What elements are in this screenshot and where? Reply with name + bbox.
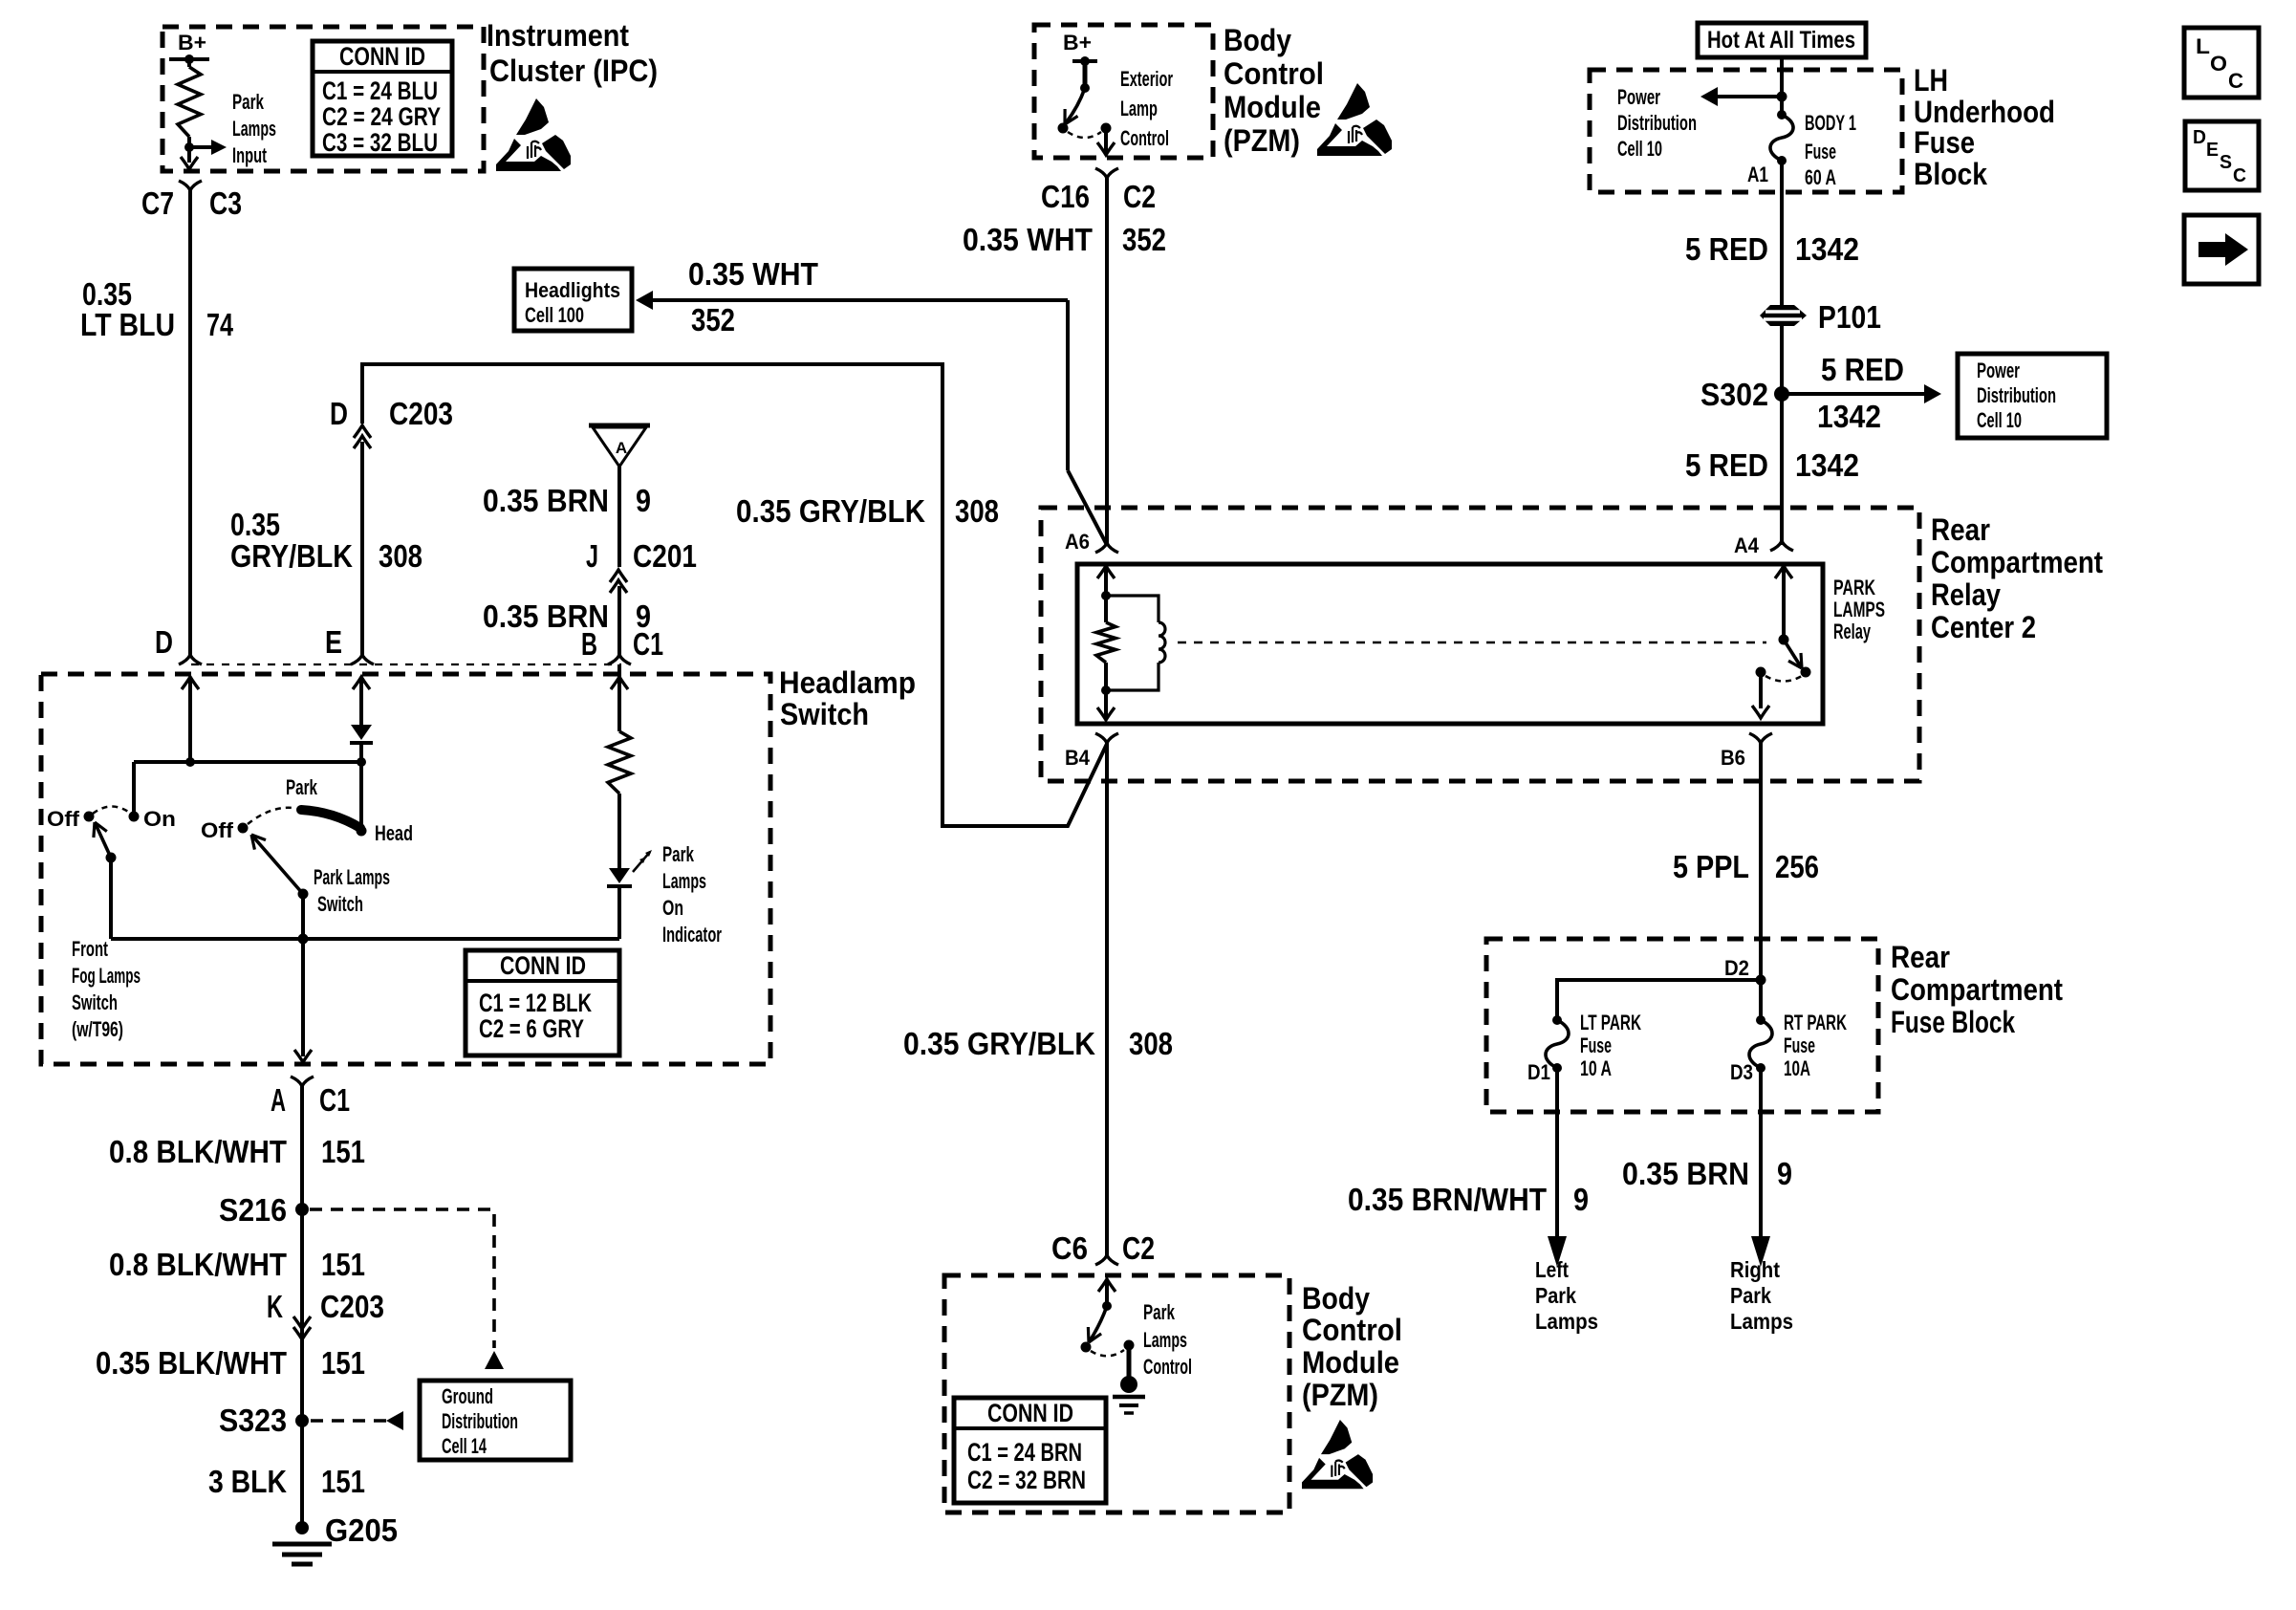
ground G205: [295, 1521, 309, 1534]
icon box LOC: [2184, 28, 2259, 98]
box Power Distribution Cell 10 (right): [1958, 354, 2107, 438]
svg-text:10 A: 10 A: [1580, 1056, 1612, 1080]
svg-text:D: D: [330, 396, 348, 431]
svg-text:D: D: [155, 624, 173, 660]
svg-text:LT PARK: LT PARK: [1580, 1011, 1641, 1034]
dashed travel arc relay contact: [1765, 676, 1802, 682]
relay switch arm: [1784, 640, 1802, 668]
svg-text:Fuse: Fuse: [1914, 125, 1975, 160]
svg-text:0.8 BLK/WHT: 0.8 BLK/WHT: [109, 1247, 287, 1282]
pin arrow D into switch: [182, 677, 199, 689]
svg-text:C1 = 24 BLU: C1 = 24 BLU: [322, 76, 438, 105]
CONN ID box (headlamp switch): [466, 950, 619, 1055]
arrow park lamps input (right): [189, 145, 212, 149]
svg-text:Off: Off: [47, 807, 80, 831]
svg-text:C6: C6: [1051, 1230, 1088, 1266]
body control module (PZM) dashed box top: [1034, 25, 1213, 158]
svg-text:J: J: [586, 538, 598, 574]
resistor relay coil suppression: [1096, 622, 1116, 663]
wire from hot feed: [1780, 57, 1784, 115]
svg-text:C2 = 6 GRY: C2 = 6 GRY: [479, 1014, 584, 1043]
svg-text:74: 74: [206, 307, 233, 342]
LED park lamps on indicator: [609, 868, 630, 883]
dashed travel arc park lamps control: [1091, 1350, 1124, 1356]
svg-text:B+: B+: [1063, 31, 1092, 54]
svg-text:Park: Park: [1730, 1283, 1771, 1308]
svg-text:E: E: [2206, 140, 2219, 161]
svg-text:C2: C2: [1122, 1230, 1155, 1266]
box Ground Distribution Cell 14: [420, 1381, 571, 1460]
splice S216: [295, 1203, 309, 1216]
wire fog pivot down: [109, 858, 113, 939]
ESD symbol IPC: [496, 98, 571, 171]
svg-text:Body: Body: [1224, 23, 1291, 57]
svg-text:On: On: [662, 896, 683, 920]
svg-text:C: C: [2233, 165, 2246, 186]
connector C6/C2: [1095, 1255, 1118, 1265]
svg-text:0.35 WHT: 0.35 WHT: [688, 256, 818, 292]
svg-text:Distribution: Distribution: [1977, 383, 2056, 407]
svg-text:C2: C2: [1123, 179, 1156, 214]
svg-text:GRY/BLK: GRY/BLK: [230, 538, 353, 574]
connector B6: [1749, 733, 1772, 743]
wire 9 BRN/WHT to left park lamps: [1555, 1068, 1559, 1238]
svg-text:C7: C7: [141, 185, 174, 221]
diode headlamp switch E leg: [351, 725, 372, 740]
svg-text:C3 = 32 BLU: C3 = 32 BLU: [322, 128, 438, 157]
svg-text:Relay: Relay: [1931, 577, 2001, 612]
wire 352 WHT to headlights: [652, 298, 1068, 302]
svg-text:352: 352: [1122, 222, 1166, 257]
svg-text:BODY 1: BODY 1: [1805, 111, 1856, 135]
wire 352 WHT (BCM to relay A6): [1105, 178, 1109, 543]
svg-text:5 RED: 5 RED: [1821, 352, 1904, 387]
wire 308 GRY/BLK upper run: [362, 364, 1107, 826]
svg-text:Compartment: Compartment: [1931, 545, 2103, 579]
dashed travel arc fog switch: [93, 807, 131, 815]
connector B4: [1095, 733, 1118, 743]
svg-text:Exterior: Exterior: [1120, 67, 1173, 91]
svg-text:C1 = 24 BRN: C1 = 24 BRN: [967, 1438, 1082, 1467]
svg-text:C203: C203: [389, 396, 453, 431]
svg-text:Hot At All Times: Hot At All Times: [1707, 27, 1855, 54]
park lamps relay box: [1077, 564, 1823, 724]
bus wire bottom of switch: [111, 937, 619, 941]
svg-text:1342: 1342: [1817, 399, 1881, 434]
ESD symbol BCM bottom: [1302, 1420, 1373, 1489]
svg-text:Ground: Ground: [442, 1384, 493, 1408]
connector J/C201 inline: [610, 570, 627, 582]
svg-text:0.35 GRY/BLK: 0.35 GRY/BLK: [736, 493, 925, 529]
dashed branch S216 to ground distribution: [310, 1209, 494, 1348]
svg-text:Cluster (IPC): Cluster (IPC): [489, 54, 658, 88]
arrow S302 to power distribution cell 10 (right): [1782, 392, 1927, 396]
dashed relay actuation line: [1178, 642, 1766, 644]
svg-text:Park Lamps: Park Lamps: [314, 865, 390, 889]
svg-text:A1: A1: [1747, 163, 1768, 186]
svg-text:Headlights: Headlights: [525, 278, 620, 302]
svg-text:151: 151: [321, 1345, 365, 1381]
CONN ID box (IPC): [313, 41, 452, 156]
svg-text:(PZM): (PZM): [1302, 1378, 1378, 1412]
svg-text:9: 9: [636, 483, 651, 518]
svg-text:Left: Left: [1535, 1257, 1569, 1282]
svg-text:Lamps: Lamps: [232, 117, 276, 141]
rear compartment fuse block dashed box: [1486, 939, 1878, 1112]
connector forks D E B at headlamp switch: [179, 655, 202, 664]
svg-text:0.35: 0.35: [230, 507, 280, 542]
fuse LT PARK 10 A: [1546, 1020, 1569, 1068]
svg-text:Lamps: Lamps: [1535, 1309, 1598, 1334]
splice S323: [295, 1414, 309, 1427]
svg-text:D3: D3: [1730, 1060, 1753, 1084]
connector A6: [1095, 543, 1118, 553]
svg-text:A: A: [271, 1082, 286, 1118]
svg-text:5 PPL: 5 PPL: [1673, 849, 1749, 884]
svg-text:RT PARK: RT PARK: [1784, 1011, 1847, 1034]
svg-text:Compartment: Compartment: [1891, 972, 2063, 1007]
LED lightning arrows: [633, 852, 650, 872]
svg-text:308: 308: [1129, 1026, 1173, 1061]
svg-text:CONN ID: CONN ID: [339, 42, 425, 71]
svg-text:Switch: Switch: [317, 892, 363, 916]
svg-text:Rear: Rear: [1891, 940, 1950, 974]
svg-text:3 BLK: 3 BLK: [208, 1464, 287, 1499]
svg-text:(PZM): (PZM): [1224, 123, 1300, 158]
dashed travel arc exterior lamp control: [1068, 132, 1101, 138]
svg-text:Rear: Rear: [1931, 512, 1990, 547]
svg-text:Control: Control: [1143, 1355, 1192, 1379]
svg-text:E: E: [325, 624, 342, 660]
svg-text:Fuse Block: Fuse Block: [1891, 1005, 2015, 1039]
arrow park switch output down: [301, 939, 305, 1056]
svg-text:Module: Module: [1224, 90, 1321, 124]
svg-text:C2 = 32 BRN: C2 = 32 BRN: [967, 1466, 1086, 1494]
svg-text:Fuse: Fuse: [1784, 1033, 1815, 1057]
fog switch arm: [95, 822, 111, 858]
CONN ID box (BCM bottom): [954, 1398, 1106, 1503]
svg-text:C3: C3: [209, 185, 242, 221]
svg-text:Park: Park: [1143, 1300, 1176, 1324]
relay contact common pin A4: [1775, 566, 1792, 578]
svg-text:9: 9: [1573, 1182, 1589, 1217]
svg-text:Switch: Switch: [72, 990, 118, 1014]
svg-text:352: 352: [691, 302, 735, 337]
box Hot At All Times: [1698, 23, 1866, 57]
svg-text:308: 308: [379, 538, 422, 574]
exterior lamp control switch: [1083, 61, 1088, 88]
svg-text:Lamps: Lamps: [662, 869, 706, 893]
svg-text:D1: D1: [1527, 1060, 1550, 1084]
rear compartment relay center dashed box: [1041, 508, 1919, 781]
svg-text:Control: Control: [1224, 56, 1324, 91]
svg-text:L: L: [2196, 34, 2210, 58]
headlamp switch dashed box: [41, 674, 770, 1064]
wire park switch pivot down: [301, 894, 305, 939]
junction bus wire (D to E): [134, 760, 361, 764]
thin dashed connector line above headlamp switch: [191, 664, 621, 665]
wire 308 GRY/BLK (B4 to BCM bottom): [1105, 743, 1109, 1255]
park lamps switch arm: [251, 835, 303, 894]
relay contact output pin B6: [1756, 667, 1766, 678]
splice S302: [1774, 386, 1789, 402]
svg-text:1342: 1342: [1795, 447, 1859, 483]
relay coil output pin B4: [1104, 663, 1108, 718]
arrow into headlights box: [636, 291, 653, 310]
contact to ground: [1124, 1340, 1135, 1351]
svg-text:Park: Park: [1535, 1283, 1576, 1308]
connector K/C203 inline: [293, 1316, 311, 1329]
svg-text:Underhood: Underhood: [1914, 95, 2055, 129]
svg-text:308: 308: [955, 493, 999, 529]
svg-text:C1 = 12 BLK: C1 = 12 BLK: [479, 989, 592, 1017]
contact Off (park lamps switch): [238, 823, 249, 834]
contact Off (fog switch): [84, 812, 95, 822]
connector A4: [1770, 541, 1793, 551]
svg-text:Park: Park: [662, 842, 695, 866]
contact exterior lamp control output: [1101, 123, 1112, 134]
svg-text:0.35 BRN/WHT: 0.35 BRN/WHT: [1348, 1182, 1547, 1217]
svg-text:On: On: [143, 807, 176, 831]
svg-text:Park: Park: [232, 90, 265, 114]
svg-text:Block: Block: [1914, 157, 1987, 191]
svg-text:0.8 BLK/WHT: 0.8 BLK/WHT: [109, 1134, 287, 1169]
svg-text:C1: C1: [319, 1082, 350, 1118]
icon box arrow: [2184, 215, 2259, 284]
svg-text:LT BLU: LT BLU: [80, 307, 175, 342]
svg-text:PARK: PARK: [1833, 576, 1875, 599]
svg-text:B6: B6: [1721, 746, 1745, 770]
svg-text:Lamps: Lamps: [1143, 1328, 1187, 1352]
svg-text:151: 151: [321, 1247, 365, 1282]
dashed travel arc park lamps switch: [248, 808, 292, 824]
arrow IPC output down: [181, 157, 198, 169]
svg-text:S216: S216: [219, 1192, 287, 1228]
svg-text:G205: G205: [325, 1512, 398, 1548]
svg-text:A6: A6: [1065, 530, 1090, 554]
svg-text:Power: Power: [1977, 359, 2020, 382]
park lamps control switch: [1098, 1279, 1116, 1292]
svg-text:B: B: [581, 626, 597, 662]
svg-text:Indicator: Indicator: [662, 923, 722, 946]
svg-text:Control: Control: [1302, 1313, 1402, 1347]
svg-text:Switch: Switch: [780, 697, 869, 731]
svg-text:Relay: Relay: [1833, 620, 1871, 643]
icon box DESC: [2185, 121, 2259, 190]
relay coil (inductor): [1106, 596, 1159, 622]
ESD symbol BCM top: [1317, 83, 1392, 156]
wire 256 PPL (B6 to fuse block): [1759, 743, 1763, 980]
svg-text:B4: B4: [1065, 746, 1091, 770]
svg-text:Power: Power: [1617, 85, 1660, 109]
svg-text:5 RED: 5 RED: [1685, 231, 1768, 267]
svg-text:D: D: [2193, 127, 2206, 148]
svg-text:C2 = 24 GRY: C2 = 24 GRY: [322, 102, 441, 131]
svg-text:0.35 BLK/WHT: 0.35 BLK/WHT: [96, 1345, 287, 1381]
svg-text:S: S: [2220, 152, 2232, 173]
relay coil input pin A6: [1097, 566, 1115, 578]
wire D2 to LT PARK fuse: [1557, 980, 1761, 1020]
svg-text:C: C: [2228, 69, 2243, 93]
wire 74 LT BLU (IPC to headlamp switch D): [188, 190, 192, 655]
svg-text:Fuse: Fuse: [1805, 140, 1836, 163]
svg-text:Lamp: Lamp: [1120, 97, 1158, 120]
junction IPC resistor output: [187, 137, 191, 163]
contact Head: [359, 762, 363, 831]
svg-text:0.35 BRN: 0.35 BRN: [483, 483, 609, 518]
svg-text:9: 9: [1777, 1156, 1792, 1191]
instrument cluster (IPC) dashed box: [162, 27, 484, 171]
svg-text:Fog Lamps: Fog Lamps: [72, 964, 141, 988]
resistor IPC park-lamps-input pull-up: [187, 59, 191, 67]
svg-text:Park: Park: [286, 775, 318, 799]
svg-text:C203: C203: [320, 1289, 384, 1324]
fuse RT PARK 10A: [1759, 980, 1763, 1020]
svg-text:Right: Right: [1730, 1257, 1780, 1282]
pin arrow E into switch: [353, 677, 370, 689]
svg-text:K: K: [267, 1289, 283, 1324]
svg-text:Front: Front: [72, 937, 108, 961]
pin D2 junction: [1756, 975, 1766, 986]
svg-text:151: 151: [321, 1464, 365, 1499]
wire 1342 RED (fuse to S302): [1780, 161, 1784, 545]
svg-text:P101: P101: [1818, 299, 1881, 335]
resistor park lamps indicator: [617, 664, 621, 731]
svg-text:C201: C201: [633, 538, 697, 574]
svg-text:60 A: 60 A: [1805, 165, 1836, 189]
contact On: [129, 812, 140, 822]
svg-text:Center 2: Center 2: [1931, 610, 2036, 644]
svg-text:Head: Head: [375, 821, 413, 845]
svg-text:256: 256: [1775, 849, 1819, 884]
connector C7/C3: [179, 181, 202, 190]
svg-text:LAMPS: LAMPS: [1833, 598, 1885, 621]
connector A/C1: [291, 1077, 314, 1086]
svg-text:Lamps: Lamps: [1730, 1309, 1793, 1334]
wire 151 BLK/WHT run: [300, 1086, 304, 1523]
svg-text:Body: Body: [1302, 1281, 1370, 1316]
svg-text:Fuse: Fuse: [1580, 1033, 1612, 1057]
svg-text:Cell 14: Cell 14: [442, 1434, 487, 1458]
svg-text:CONN ID: CONN ID: [987, 1399, 1073, 1427]
svg-text:S323: S323: [219, 1403, 287, 1438]
svg-text:B+: B+: [178, 31, 206, 54]
dashed branch S323 to ground distribution: [311, 1419, 386, 1423]
svg-text:Headlamp: Headlamp: [779, 665, 916, 700]
connector C16/C2: [1095, 168, 1118, 178]
svg-text:Distribution: Distribution: [1617, 111, 1697, 135]
box Headlights Cell 100: [514, 269, 632, 331]
svg-text:(w/T96): (w/T96): [72, 1017, 123, 1041]
svg-text:Instrument: Instrument: [487, 18, 629, 53]
svg-text:LH: LH: [1914, 63, 1948, 98]
ground inside BCM: [1120, 1376, 1137, 1393]
svg-text:CONN ID: CONN ID: [500, 951, 586, 980]
connector triangle A: [589, 424, 650, 428]
wire 9 BRN from A to C201: [617, 467, 621, 567]
body control module (PZM) dashed box bottom: [944, 1275, 1289, 1512]
svg-text:A: A: [616, 439, 627, 457]
svg-text:0.35 BRN: 0.35 BRN: [1622, 1156, 1749, 1191]
svg-text:C1: C1: [633, 626, 663, 662]
wire to On contact: [132, 762, 136, 816]
fuse BODY 1 60 A: [1770, 115, 1793, 161]
wire 9 BRN to right park lamps: [1759, 1068, 1763, 1238]
thick arc Park-Head: [301, 810, 360, 828]
svg-text:Cell 10: Cell 10: [1977, 408, 2022, 432]
LH underhood fuse block dashed box: [1590, 70, 1902, 192]
svg-text:0.35 WHT: 0.35 WHT: [963, 222, 1093, 257]
svg-text:Cell 100: Cell 100: [525, 303, 584, 327]
svg-text:151: 151: [321, 1134, 365, 1169]
svg-text:Control: Control: [1120, 126, 1169, 150]
svg-text:10A: 10A: [1784, 1056, 1810, 1080]
arrow to power distribution cell 10 (left): [1716, 95, 1782, 98]
svg-text:Cell 10: Cell 10: [1617, 137, 1662, 161]
svg-text:Module: Module: [1302, 1345, 1399, 1380]
svg-text:O: O: [2210, 52, 2227, 76]
svg-text:Distribution: Distribution: [442, 1409, 518, 1433]
svg-text:S302: S302: [1700, 377, 1768, 412]
svg-text:1342: 1342: [1795, 231, 1859, 267]
svg-text:Off: Off: [201, 818, 234, 842]
svg-text:5 RED: 5 RED: [1685, 447, 1768, 483]
connector D/C203 inline: [354, 425, 371, 438]
svg-text:C16: C16: [1041, 179, 1090, 214]
svg-text:0.35 GRY/BLK: 0.35 GRY/BLK: [903, 1026, 1095, 1061]
grommet P101: [1760, 305, 1807, 326]
svg-text:A4: A4: [1734, 533, 1760, 557]
svg-text:D2: D2: [1724, 956, 1749, 980]
svg-text:Input: Input: [232, 143, 267, 167]
